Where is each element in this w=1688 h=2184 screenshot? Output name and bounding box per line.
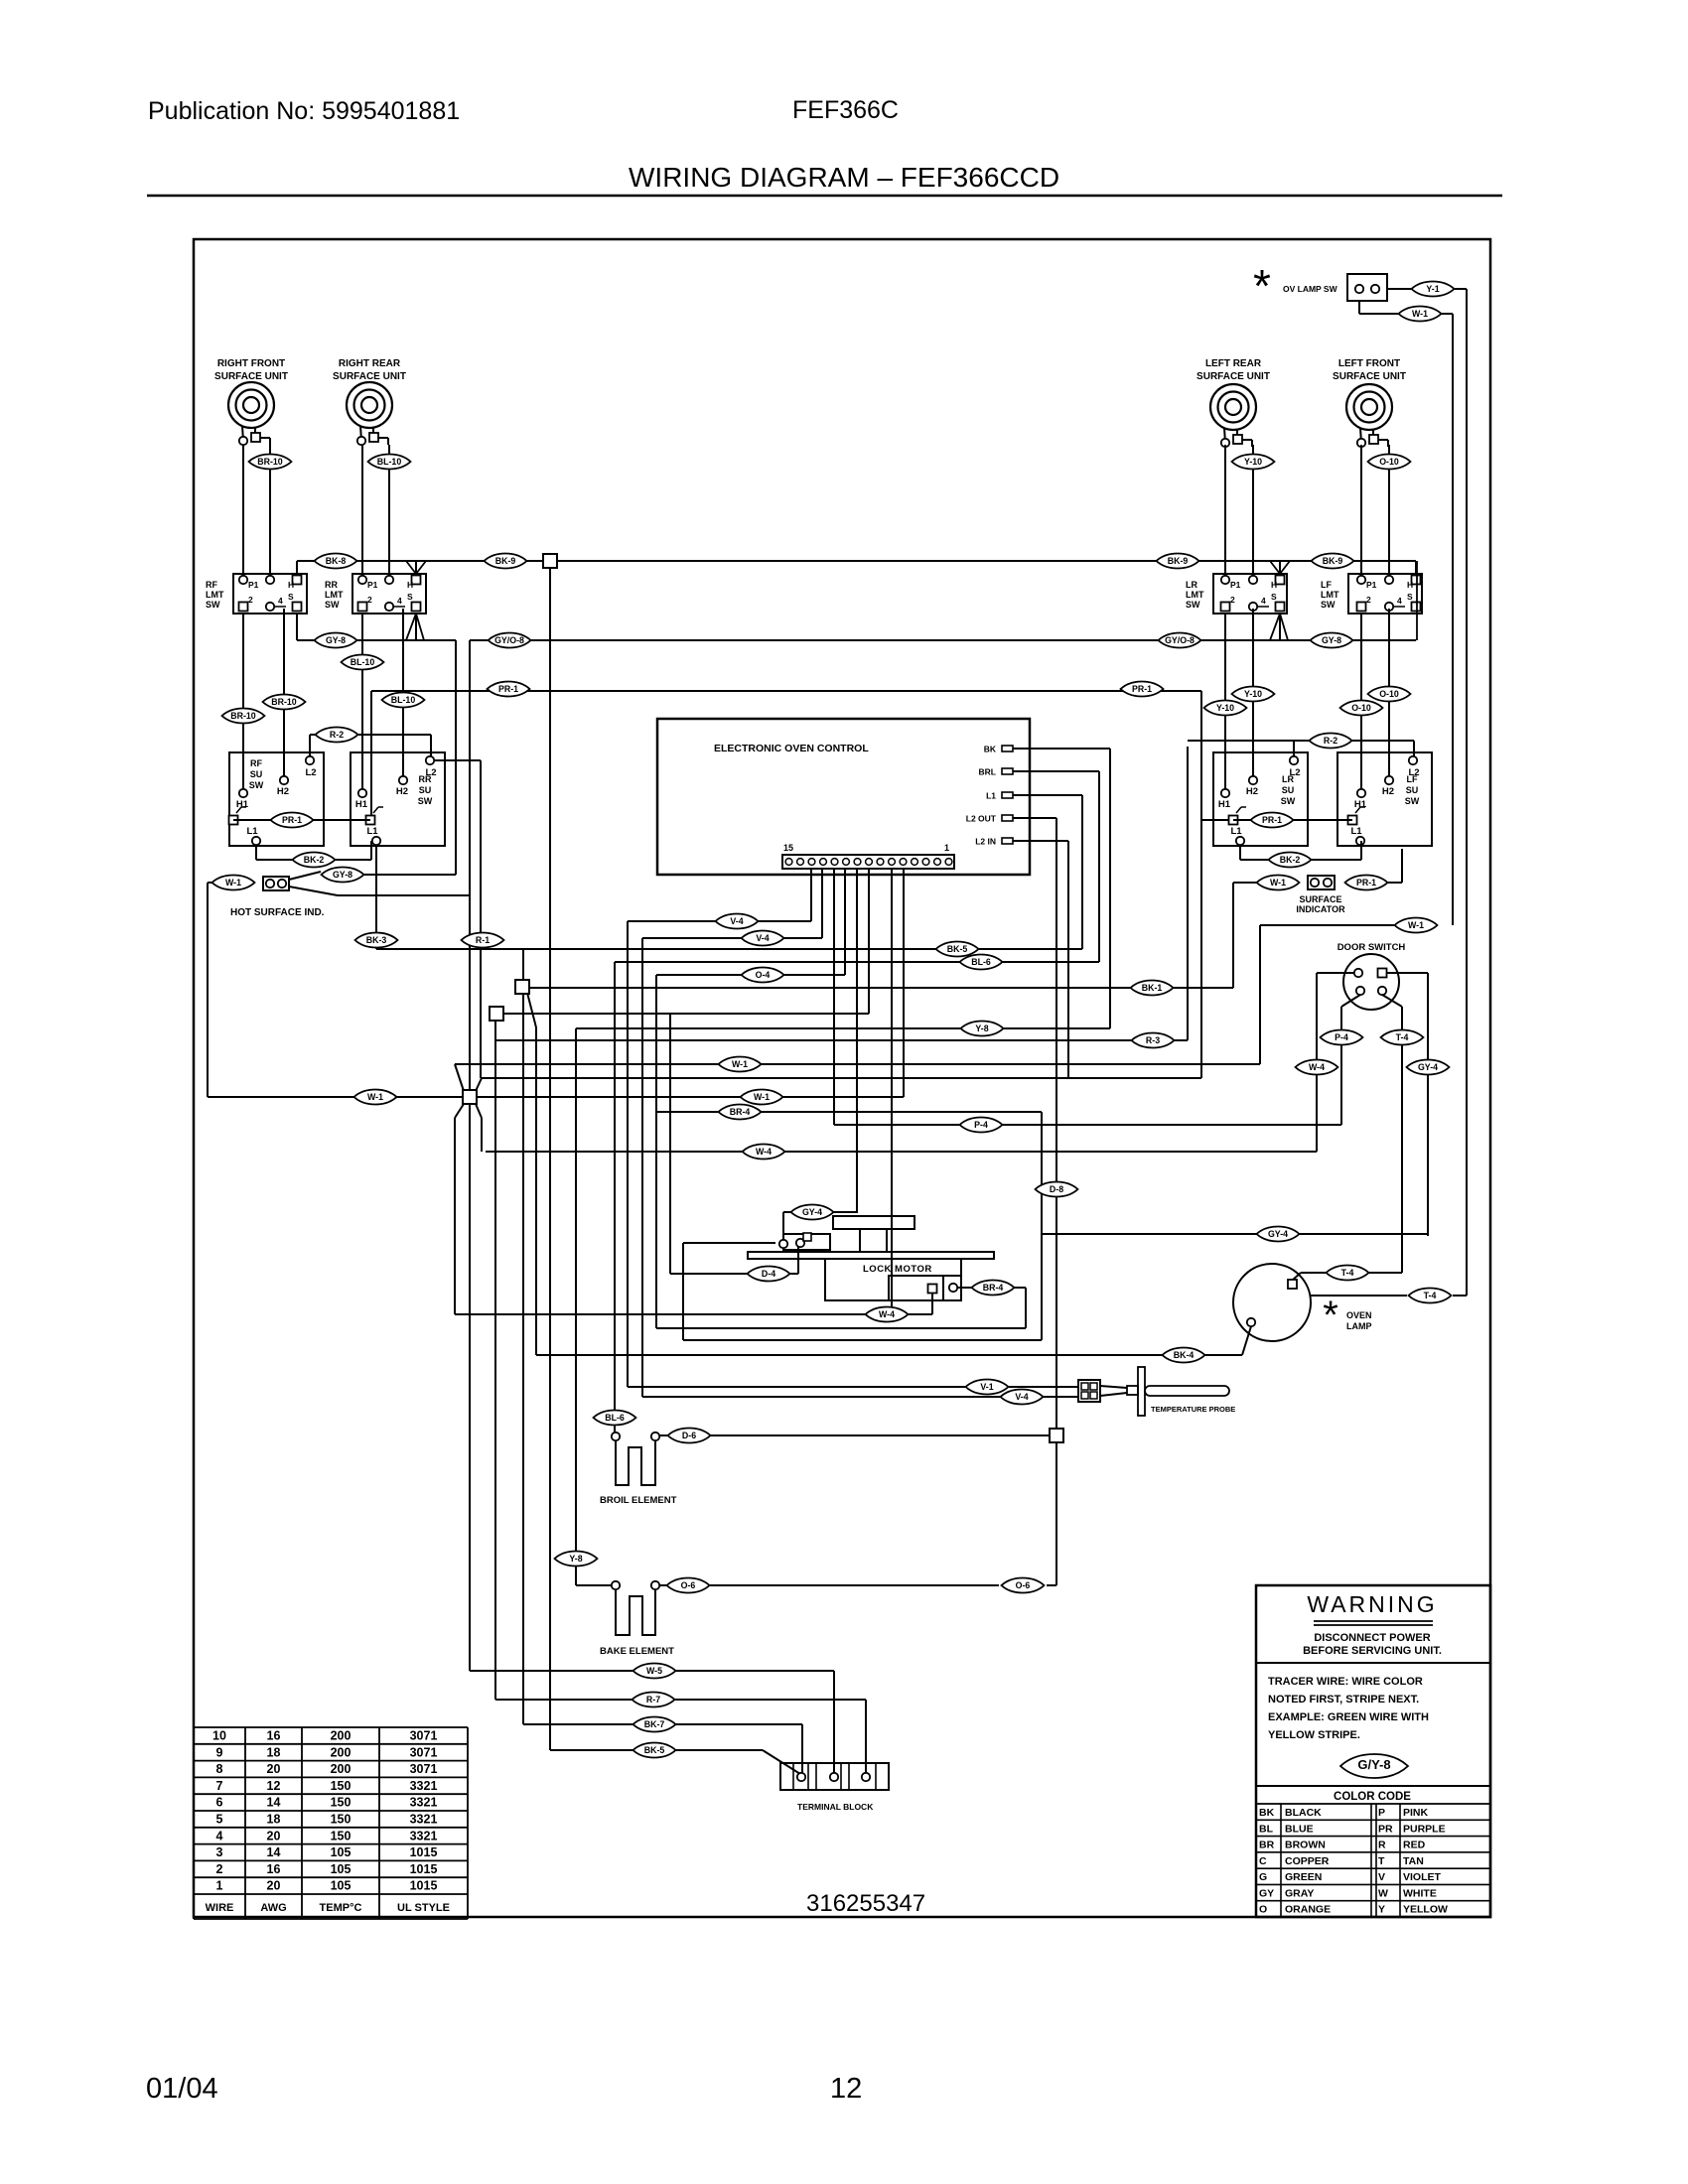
svg-text:3321: 3321 (410, 1813, 438, 1827)
svg-text:BK-3: BK-3 (366, 935, 387, 945)
svg-text:W-1: W-1 (1412, 309, 1428, 319)
svg-text:BK: BK (984, 745, 997, 754)
svg-text:DOOR SWITCH: DOOR SWITCH (1337, 942, 1406, 953)
svg-text:PR-1: PR-1 (1132, 684, 1152, 694)
svg-text:W-1: W-1 (367, 1092, 383, 1102)
svg-text:L2: L2 (1408, 767, 1419, 778)
svg-text:BROWN: BROWN (1285, 1840, 1326, 1851)
svg-text:Y-10: Y-10 (1216, 703, 1234, 713)
svg-text:R-1: R-1 (476, 935, 490, 945)
svg-text:PR: PR (1378, 1823, 1393, 1835)
svg-text:V-1: V-1 (980, 1382, 993, 1392)
svg-text:O-4: O-4 (756, 970, 771, 980)
svg-text:GY/O-8: GY/O-8 (1165, 635, 1195, 645)
svg-text:S: S (407, 592, 413, 602)
svg-text:SURFACE UNIT: SURFACE UNIT (333, 371, 406, 382)
svg-text:W-5: W-5 (646, 1666, 662, 1676)
svg-text:INDICATOR: INDICATOR (1296, 904, 1345, 914)
svg-text:W-4: W-4 (756, 1147, 772, 1157)
svg-text:R: R (1378, 1840, 1386, 1851)
svg-text:W-1: W-1 (1270, 878, 1286, 887)
svg-text:Y-8: Y-8 (569, 1554, 582, 1564)
svg-text:COLOR CODE: COLOR CODE (1334, 1791, 1411, 1803)
svg-text:316255347: 316255347 (806, 1890, 925, 1917)
svg-text:RF: RF (206, 580, 217, 590)
svg-text:GY-8: GY-8 (1322, 635, 1341, 645)
svg-text:H: H (1407, 580, 1413, 590)
svg-text:LEFT FRONT: LEFT FRONT (1338, 358, 1400, 369)
svg-text:SW: SW (1321, 600, 1336, 610)
svg-text:BR-10: BR-10 (271, 697, 297, 707)
svg-text:BL-6: BL-6 (605, 1413, 625, 1423)
svg-text:150: 150 (331, 1813, 352, 1827)
svg-text:RR: RR (325, 580, 338, 590)
svg-text:H: H (288, 580, 294, 590)
svg-text:BK-5: BK-5 (947, 944, 968, 954)
svg-text:P1: P1 (367, 580, 378, 590)
svg-text:200: 200 (331, 1729, 352, 1743)
svg-text:O-10: O-10 (1379, 457, 1399, 467)
svg-text:TEMPERATURE PROBE: TEMPERATURE PROBE (1151, 1405, 1235, 1414)
svg-text:BL: BL (1259, 1823, 1274, 1835)
svg-text:BK-9: BK-9 (1323, 556, 1343, 566)
svg-text:S: S (1407, 592, 1413, 602)
svg-text:SW: SW (418, 796, 433, 806)
svg-text:3071: 3071 (410, 1745, 438, 1759)
svg-text:O-6: O-6 (1016, 1580, 1031, 1590)
svg-text:O: O (1259, 1904, 1267, 1916)
svg-text:GY-4: GY-4 (802, 1207, 822, 1217)
svg-text:GY-4: GY-4 (1418, 1062, 1438, 1072)
svg-text:TRACER WIRE: WIRE COLOR: TRACER WIRE: WIRE COLOR (1268, 1676, 1423, 1688)
svg-text:DISCONNECT POWER: DISCONNECT POWER (1314, 1632, 1430, 1644)
svg-text:LMT: LMT (325, 590, 344, 600)
svg-text:G: G (1259, 1871, 1267, 1883)
svg-text:2: 2 (1366, 595, 1371, 605)
svg-text:BL-6: BL-6 (971, 957, 991, 967)
svg-text:BAKE ELEMENT: BAKE ELEMENT (600, 1646, 674, 1657)
svg-text:L2: L2 (305, 767, 316, 778)
svg-text:4: 4 (216, 1829, 223, 1843)
svg-text:3: 3 (216, 1845, 223, 1859)
svg-text:WIRE: WIRE (206, 1902, 234, 1914)
svg-text:P1: P1 (248, 580, 259, 590)
svg-text:12: 12 (830, 2073, 862, 2105)
svg-text:RF: RF (250, 758, 262, 768)
svg-text:L1: L1 (366, 826, 378, 837)
svg-text:L1: L1 (246, 826, 258, 837)
svg-text:T-4: T-4 (1341, 1268, 1354, 1278)
svg-text:3321: 3321 (410, 1829, 438, 1843)
svg-text:150: 150 (331, 1796, 352, 1810)
svg-text:PR-1: PR-1 (1356, 878, 1376, 887)
svg-text:D-4: D-4 (762, 1269, 775, 1279)
svg-text:YELLOW STRIPE.: YELLOW STRIPE. (1268, 1729, 1360, 1741)
svg-text:3071: 3071 (410, 1762, 438, 1776)
svg-text:RIGHT FRONT: RIGHT FRONT (217, 358, 285, 369)
svg-text:200: 200 (331, 1762, 352, 1776)
svg-text:OV LAMP SW: OV LAMP SW (1283, 284, 1338, 294)
svg-text:YELLOW: YELLOW (1403, 1904, 1448, 1916)
svg-text:3321: 3321 (410, 1779, 438, 1793)
svg-text:TEMP°C: TEMP°C (320, 1902, 362, 1914)
svg-text:BK-2: BK-2 (304, 855, 325, 865)
svg-text:L2: L2 (425, 767, 436, 778)
svg-text:BR-10: BR-10 (257, 457, 283, 467)
svg-text:BR-10: BR-10 (230, 711, 256, 721)
svg-text:20: 20 (267, 1829, 281, 1843)
svg-text:BROIL ELEMENT: BROIL ELEMENT (600, 1495, 677, 1506)
svg-text:H2: H2 (277, 786, 289, 797)
svg-text:Y-10: Y-10 (1244, 457, 1262, 467)
svg-text:Y: Y (1378, 1904, 1385, 1916)
svg-text:PR-1: PR-1 (498, 684, 518, 694)
svg-text:VIOLET: VIOLET (1403, 1871, 1442, 1883)
svg-text:H1: H1 (355, 799, 368, 810)
svg-text:T-4: T-4 (1396, 1032, 1409, 1042)
svg-text:HOT SURFACE IND.: HOT SURFACE IND. (230, 907, 325, 918)
svg-text:5: 5 (216, 1813, 223, 1827)
svg-text:200: 200 (331, 1745, 352, 1759)
svg-text:1015: 1015 (410, 1845, 438, 1859)
svg-text:105: 105 (331, 1845, 352, 1859)
svg-text:01/04: 01/04 (146, 2073, 218, 2105)
svg-text:1015: 1015 (410, 1862, 438, 1876)
svg-text:H: H (1271, 580, 1277, 590)
svg-text:L1: L1 (986, 791, 996, 801)
svg-text:9: 9 (216, 1745, 223, 1759)
svg-text:SURFACE: SURFACE (1299, 894, 1341, 904)
svg-text:1: 1 (944, 843, 949, 853)
svg-text:R-2: R-2 (1324, 736, 1337, 746)
svg-text:Y-10: Y-10 (1244, 689, 1262, 699)
svg-text:PR-1: PR-1 (282, 815, 302, 825)
svg-text:3071: 3071 (410, 1729, 438, 1743)
svg-text:14: 14 (267, 1845, 281, 1859)
svg-text:Y-8: Y-8 (975, 1024, 988, 1033)
svg-text:105: 105 (331, 1879, 352, 1893)
svg-text:PURPLE: PURPLE (1403, 1823, 1446, 1835)
svg-text:Y-1: Y-1 (1426, 284, 1439, 294)
svg-text:4: 4 (1261, 596, 1266, 606)
svg-text:P1: P1 (1366, 580, 1377, 590)
svg-text:150: 150 (331, 1829, 352, 1843)
svg-text:*: * (1253, 260, 1271, 312)
svg-text:WIRING DIAGRAM – FEF366CCD: WIRING DIAGRAM – FEF366CCD (629, 162, 1059, 193)
svg-text:LMT: LMT (1321, 590, 1339, 600)
svg-text:R-2: R-2 (330, 730, 344, 740)
svg-text:S: S (288, 592, 294, 602)
svg-text:4: 4 (1397, 596, 1402, 606)
svg-text:H2: H2 (396, 786, 408, 797)
svg-text:L2 OUT: L2 OUT (966, 814, 997, 824)
svg-text:BK-7: BK-7 (644, 1719, 665, 1729)
svg-text:SW: SW (1405, 796, 1420, 806)
svg-text:BRL: BRL (979, 767, 996, 777)
svg-text:H1: H1 (236, 799, 249, 810)
svg-text:BK-5: BK-5 (644, 1745, 665, 1755)
svg-text:3321: 3321 (410, 1796, 438, 1810)
svg-text:14: 14 (267, 1796, 281, 1810)
svg-text:RED: RED (1403, 1840, 1426, 1851)
svg-text:20: 20 (267, 1762, 281, 1776)
svg-text:SURFACE UNIT: SURFACE UNIT (1333, 371, 1406, 382)
svg-text:SU: SU (1282, 785, 1295, 795)
svg-text:V: V (1378, 1871, 1385, 1883)
svg-text:SW: SW (206, 600, 220, 610)
svg-text:ELECTRONIC OVEN CONTROL: ELECTRONIC OVEN CONTROL (714, 743, 869, 754)
svg-text:W: W (1378, 1887, 1388, 1899)
svg-text:SU: SU (250, 769, 263, 779)
svg-text:2: 2 (248, 595, 253, 605)
svg-text:7: 7 (216, 1779, 223, 1793)
svg-text:C: C (1259, 1855, 1267, 1867)
svg-text:BK-9: BK-9 (495, 556, 516, 566)
svg-text:105: 105 (331, 1862, 352, 1876)
svg-text:H2: H2 (1382, 786, 1394, 797)
svg-text:SU: SU (419, 785, 432, 795)
svg-text:LMT: LMT (1186, 590, 1204, 600)
svg-text:BK-4: BK-4 (1174, 1350, 1195, 1360)
svg-text:V-4: V-4 (730, 916, 743, 926)
svg-text:GREEN: GREEN (1285, 1871, 1322, 1883)
svg-text:BEFORE SERVICING UNIT.: BEFORE SERVICING UNIT. (1303, 1645, 1442, 1657)
svg-text:H2: H2 (1246, 786, 1258, 797)
svg-text:O-10: O-10 (1351, 703, 1371, 713)
svg-text:FEF366C: FEF366C (792, 96, 899, 124)
svg-text:P-4: P-4 (1335, 1032, 1348, 1042)
svg-text:BK-9: BK-9 (1168, 556, 1189, 566)
svg-text:LF: LF (1321, 580, 1332, 590)
svg-text:Publication No: 5995401881: Publication No: 5995401881 (148, 97, 460, 125)
svg-text:LR: LR (1186, 580, 1197, 590)
svg-text:1: 1 (216, 1879, 223, 1893)
svg-text:AWG: AWG (260, 1902, 286, 1914)
svg-text:PINK: PINK (1403, 1807, 1429, 1819)
svg-text:V-4: V-4 (1015, 1392, 1028, 1402)
svg-text:12: 12 (267, 1779, 281, 1793)
svg-text:S: S (1271, 592, 1277, 602)
svg-text:8: 8 (216, 1762, 223, 1776)
svg-text:P1: P1 (1230, 580, 1241, 590)
svg-text:W-4: W-4 (879, 1309, 895, 1319)
svg-text:LAMP: LAMP (1346, 1321, 1372, 1331)
svg-text:ORANGE: ORANGE (1285, 1904, 1331, 1916)
svg-text:W-1: W-1 (225, 878, 241, 887)
svg-text:BK-8: BK-8 (326, 556, 347, 566)
svg-text:BLUE: BLUE (1285, 1823, 1314, 1835)
svg-text:L2: L2 (1289, 767, 1300, 778)
svg-text:W-1: W-1 (754, 1092, 770, 1102)
svg-text:16: 16 (267, 1862, 281, 1876)
svg-text:RIGHT REAR: RIGHT REAR (339, 358, 401, 369)
svg-text:BK: BK (1259, 1807, 1275, 1819)
svg-text:LMT: LMT (206, 590, 224, 600)
svg-text:OVEN: OVEN (1346, 1310, 1372, 1320)
svg-text:LEFT REAR: LEFT REAR (1205, 358, 1262, 369)
svg-text:SU: SU (1406, 785, 1419, 795)
svg-text:GY-8: GY-8 (326, 635, 346, 645)
svg-text:WARNING: WARNING (1307, 1591, 1437, 1617)
svg-text:W-1: W-1 (1408, 920, 1424, 930)
svg-text:UL STYLE: UL STYLE (397, 1902, 450, 1914)
svg-text:*: * (1323, 1294, 1338, 1337)
svg-text:P: P (1378, 1807, 1385, 1819)
svg-text:4: 4 (278, 596, 283, 606)
svg-text:BL-10: BL-10 (377, 457, 402, 467)
svg-text:SW: SW (1281, 796, 1296, 806)
svg-text:BR-4: BR-4 (983, 1283, 1004, 1293)
svg-text:4: 4 (397, 596, 402, 606)
svg-text:L1: L1 (1350, 826, 1362, 837)
svg-text:H1: H1 (1218, 799, 1231, 810)
svg-text:D-6: D-6 (682, 1431, 696, 1440)
svg-text:COPPER: COPPER (1285, 1855, 1330, 1867)
svg-text:W-1: W-1 (732, 1059, 748, 1069)
svg-text:PR-1: PR-1 (1262, 815, 1282, 825)
svg-text:150: 150 (331, 1779, 352, 1793)
svg-text:18: 18 (267, 1745, 281, 1759)
svg-text:TERMINAL BLOCK: TERMINAL BLOCK (797, 1802, 874, 1812)
svg-text:O-6: O-6 (681, 1580, 696, 1590)
svg-text:18: 18 (267, 1813, 281, 1827)
svg-text:SW: SW (249, 780, 264, 790)
svg-text:BL-10: BL-10 (351, 657, 375, 667)
svg-text:6: 6 (216, 1796, 223, 1810)
svg-text:2: 2 (367, 595, 372, 605)
svg-text:GY: GY (1259, 1887, 1274, 1899)
svg-text:SURFACE UNIT: SURFACE UNIT (214, 371, 288, 382)
svg-text:BLACK: BLACK (1285, 1807, 1322, 1819)
svg-text:SURFACE UNIT: SURFACE UNIT (1196, 371, 1270, 382)
svg-text:LOCK MOTOR: LOCK MOTOR (863, 1264, 932, 1275)
svg-text:L2 IN: L2 IN (975, 837, 996, 847)
svg-text:GRAY: GRAY (1285, 1887, 1314, 1899)
svg-text:15: 15 (783, 843, 793, 853)
svg-text:EXAMPLE: GREEN WIRE WITH: EXAMPLE: GREEN WIRE WITH (1268, 1711, 1429, 1723)
svg-text:P-4: P-4 (974, 1120, 988, 1130)
svg-text:H: H (407, 580, 413, 590)
svg-text:NOTED FIRST, STRIPE NEXT.: NOTED FIRST, STRIPE NEXT. (1268, 1694, 1419, 1706)
svg-text:T-4: T-4 (1424, 1291, 1437, 1300)
svg-text:2: 2 (1230, 595, 1235, 605)
svg-text:BR: BR (1259, 1840, 1275, 1851)
svg-text:SW: SW (325, 600, 340, 610)
svg-text:20: 20 (267, 1879, 281, 1893)
svg-text:16: 16 (267, 1729, 281, 1743)
svg-text:V-4: V-4 (756, 933, 769, 943)
svg-text:1015: 1015 (410, 1879, 438, 1893)
svg-text:BK-2: BK-2 (1280, 855, 1301, 865)
svg-text:SW: SW (1186, 600, 1200, 610)
svg-text:D-8: D-8 (1050, 1184, 1063, 1194)
svg-text:H1: H1 (1354, 799, 1367, 810)
svg-text:W-4: W-4 (1309, 1062, 1325, 1072)
svg-text:GY-4: GY-4 (1268, 1229, 1288, 1239)
svg-text:GY/O-8: GY/O-8 (494, 635, 524, 645)
svg-text:TAN: TAN (1403, 1855, 1424, 1867)
svg-text:2: 2 (216, 1862, 223, 1876)
svg-text:T: T (1378, 1855, 1385, 1867)
svg-text:WHITE: WHITE (1403, 1887, 1437, 1899)
svg-text:O-10: O-10 (1379, 689, 1399, 699)
svg-text:10: 10 (212, 1729, 226, 1743)
svg-text:BR-4: BR-4 (730, 1107, 751, 1117)
svg-text:R-3: R-3 (1146, 1035, 1160, 1045)
svg-text:G/Y-8: G/Y-8 (1357, 1757, 1390, 1772)
svg-text:BK-1: BK-1 (1142, 983, 1163, 993)
svg-text:R-7: R-7 (646, 1695, 660, 1705)
svg-text:BL-10: BL-10 (391, 695, 416, 705)
svg-text:GY-8: GY-8 (333, 870, 352, 880)
svg-text:L1: L1 (1230, 826, 1242, 837)
